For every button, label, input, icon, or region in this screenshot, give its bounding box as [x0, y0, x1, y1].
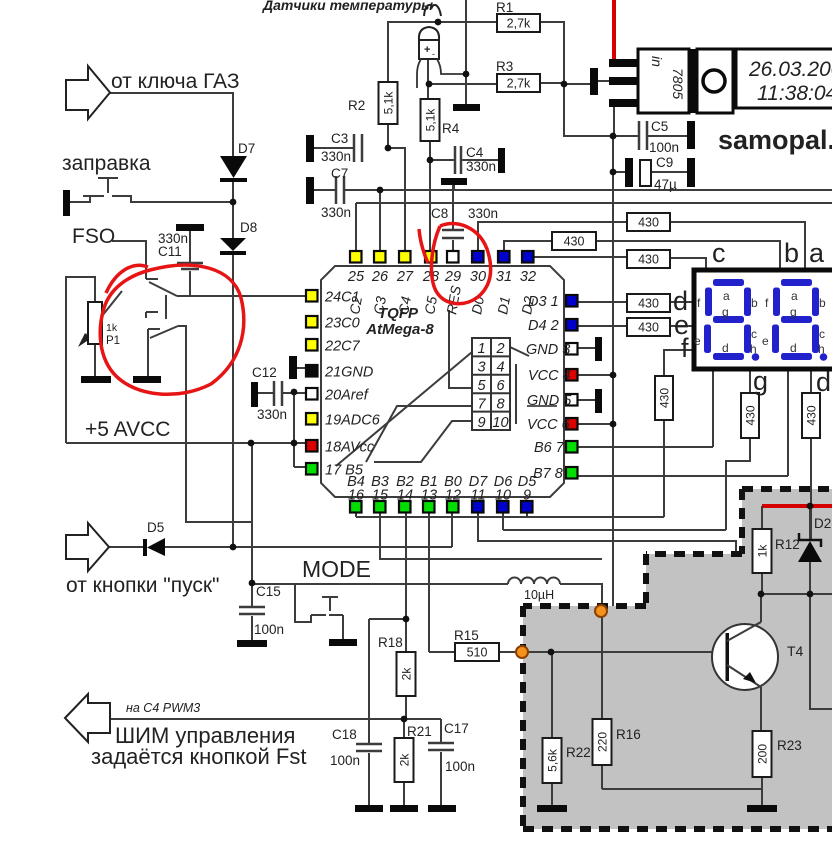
svg-text:e: e	[762, 334, 769, 348]
svg-text:R12: R12	[775, 537, 800, 552]
svg-text:3: 3	[477, 360, 485, 376]
svg-text:430: 430	[638, 253, 659, 267]
svg-text:D3 1: D3 1	[528, 294, 559, 310]
svg-text:C11: C11	[158, 244, 182, 259]
svg-text:от ключа ГАЗ: от ключа ГАЗ	[111, 70, 240, 93]
svg-text:2k: 2k	[400, 667, 414, 681]
svg-text:на C4 PWM3: на C4 PWM3	[126, 701, 200, 715]
svg-text:430: 430	[658, 388, 672, 408]
svg-text:16: 16	[348, 488, 365, 504]
svg-text:D5: D5	[147, 520, 164, 535]
svg-text:430: 430	[564, 235, 585, 249]
svg-text:заправка: заправка	[62, 152, 151, 175]
svg-text:31: 31	[496, 269, 512, 285]
svg-text:330n: 330n	[257, 407, 287, 422]
svg-text:14: 14	[397, 488, 413, 504]
svg-text:C5: C5	[421, 295, 440, 316]
svg-text:5,1k: 5,1k	[382, 91, 396, 115]
svg-text:1k: 1k	[106, 322, 118, 334]
svg-text:11: 11	[470, 488, 485, 504]
svg-text:25: 25	[347, 269, 365, 285]
svg-text:g: g	[753, 366, 768, 396]
svg-text:9: 9	[523, 488, 531, 504]
svg-text:C7: C7	[331, 166, 348, 181]
svg-text:D7: D7	[238, 141, 255, 156]
svg-text:задаётся кнопкой Fst: задаётся кнопкой Fst	[91, 744, 306, 769]
svg-text:21GND: 21GND	[324, 365, 373, 381]
svg-text:R15: R15	[454, 628, 479, 643]
svg-text:C17: C17	[444, 721, 469, 736]
svg-text:24C1: 24C1	[324, 290, 360, 306]
svg-text:220: 220	[596, 732, 610, 752]
svg-text:5: 5	[477, 378, 486, 394]
svg-text:TQFP: TQFP	[378, 305, 419, 322]
svg-text:a: a	[809, 238, 825, 268]
svg-text:C9: C9	[656, 155, 673, 170]
svg-text:20Aref: 20Aref	[324, 388, 370, 404]
svg-text:g: g	[790, 305, 797, 319]
svg-text:5,6k: 5,6k	[546, 748, 560, 772]
svg-text:30: 30	[470, 269, 486, 285]
svg-text:c: c	[751, 327, 757, 341]
svg-text:g: g	[722, 305, 729, 319]
svg-text:100n: 100n	[254, 622, 284, 637]
svg-text:R22: R22	[566, 745, 591, 760]
svg-text:R2: R2	[348, 98, 365, 113]
svg-text:430: 430	[638, 321, 659, 335]
svg-text:VCC 6: VCC 6	[527, 417, 571, 433]
svg-text:a: a	[723, 289, 730, 303]
svg-text:430: 430	[638, 297, 659, 311]
svg-text:d: d	[722, 341, 729, 355]
svg-text:27: 27	[396, 269, 414, 285]
svg-text:h: h	[818, 342, 825, 356]
svg-text:P1: P1	[106, 335, 120, 347]
svg-text:samopal.ru: samopal.ru	[718, 125, 832, 155]
svg-text:32: 32	[520, 269, 536, 285]
svg-text:b: b	[784, 238, 799, 268]
svg-text:AtMega-8: AtMega-8	[365, 321, 434, 338]
svg-text:dp: dp	[816, 367, 832, 397]
svg-text:22C7: 22C7	[324, 339, 361, 355]
svg-text:C15: C15	[256, 584, 281, 599]
svg-text:4: 4	[496, 360, 504, 376]
svg-text:430: 430	[744, 405, 758, 425]
svg-text:200: 200	[756, 744, 770, 764]
svg-text:c: c	[819, 327, 825, 341]
svg-text:100n: 100n	[445, 759, 475, 774]
svg-text:2,7k: 2,7k	[507, 17, 531, 31]
svg-text:1: 1	[477, 341, 485, 357]
svg-text:R4: R4	[442, 121, 460, 136]
svg-text:GND 3: GND 3	[526, 342, 570, 358]
svg-text:330n: 330n	[321, 205, 351, 220]
svg-text:R23: R23	[777, 738, 802, 753]
svg-text:e: e	[694, 334, 701, 348]
svg-text:7: 7	[477, 397, 486, 413]
svg-text:R18: R18	[378, 635, 403, 650]
svg-text:C3: C3	[331, 131, 348, 146]
svg-text:D2: D2	[814, 516, 831, 531]
svg-text:10: 10	[492, 415, 508, 431]
svg-text:C4: C4	[466, 145, 484, 160]
svg-text:18AVcc: 18AVcc	[325, 440, 375, 456]
svg-text:47µ: 47µ	[654, 177, 677, 192]
svg-text:C18: C18	[332, 727, 357, 742]
svg-text:330n: 330n	[468, 206, 498, 221]
svg-text:R21: R21	[407, 724, 432, 739]
svg-text:10: 10	[495, 488, 511, 504]
svg-text:Датчики температуры: Датчики температуры	[262, 0, 433, 13]
svg-text:23C0: 23C0	[324, 316, 360, 332]
svg-text:FSO: FSO	[72, 225, 115, 248]
svg-text:VCC 4: VCC 4	[528, 368, 571, 384]
svg-text:330n: 330n	[466, 159, 496, 174]
svg-text:R3: R3	[496, 59, 513, 74]
svg-text:C8: C8	[431, 206, 448, 221]
svg-text:2,7k: 2,7k	[507, 77, 531, 91]
svg-text:12: 12	[445, 488, 461, 504]
svg-text:MODE: MODE	[302, 556, 371, 582]
svg-text:D1: D1	[494, 295, 513, 315]
svg-text:9: 9	[477, 415, 485, 431]
svg-text:26: 26	[371, 269, 389, 285]
svg-text:C5: C5	[651, 119, 668, 134]
svg-text:510: 510	[467, 646, 488, 660]
svg-text:in: in	[649, 56, 665, 67]
svg-text:13: 13	[421, 488, 437, 504]
svg-text:330n: 330n	[321, 149, 351, 164]
svg-text:2k: 2k	[398, 753, 412, 767]
svg-text:R1: R1	[496, 0, 513, 15]
svg-text:1k: 1k	[756, 544, 770, 558]
svg-text:d: d	[790, 341, 797, 355]
svg-text:11:38:04: 11:38:04	[757, 82, 832, 105]
svg-text:10µH: 10µH	[524, 588, 554, 602]
svg-text:R16: R16	[616, 727, 641, 742]
svg-text:D8: D8	[240, 220, 257, 235]
svg-text:D4 2: D4 2	[528, 318, 559, 334]
svg-text:C12: C12	[252, 365, 277, 380]
svg-text:7805: 7805	[670, 68, 686, 99]
svg-text:B6 7: B6 7	[534, 440, 565, 456]
svg-text:6: 6	[496, 378, 505, 394]
svg-text:+5 AVCC: +5 AVCC	[85, 418, 170, 441]
svg-text:26.03.200: 26.03.200	[748, 58, 832, 81]
svg-text:от кнопки "пуск": от кнопки "пуск"	[66, 574, 220, 597]
svg-text:100n: 100n	[330, 753, 360, 768]
svg-text:8: 8	[496, 397, 504, 413]
svg-text:5,1k: 5,1k	[424, 108, 438, 132]
svg-text:19ADC6: 19ADC6	[325, 413, 381, 429]
svg-text:15: 15	[372, 488, 389, 504]
svg-text:h: h	[750, 342, 757, 356]
svg-text:c: c	[712, 238, 726, 268]
svg-text:f: f	[681, 333, 689, 363]
svg-text:+: +	[424, 44, 430, 56]
svg-text:100n: 100n	[649, 140, 679, 155]
svg-text:B7 8: B7 8	[533, 466, 563, 482]
svg-text:-: -	[432, 49, 435, 59]
svg-text:2: 2	[495, 341, 504, 357]
svg-text:b: b	[819, 296, 826, 310]
svg-text:29: 29	[444, 269, 461, 285]
svg-text:T4: T4	[787, 643, 804, 659]
svg-text:b: b	[751, 296, 758, 310]
svg-text:430: 430	[638, 216, 659, 230]
svg-text:a: a	[791, 289, 798, 303]
svg-text:430: 430	[805, 405, 819, 425]
